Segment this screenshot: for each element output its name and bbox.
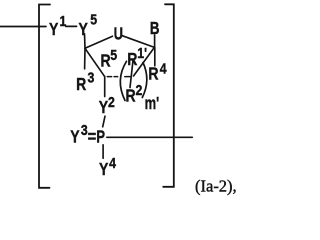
svg-text:5: 5 — [90, 11, 97, 27]
svg-text:R: R — [101, 51, 111, 71]
svg-text:3: 3 — [81, 122, 88, 138]
svg-text:Y: Y — [99, 97, 109, 117]
svg-text:(Ia-2),: (Ia-2), — [195, 177, 237, 196]
svg-text:R: R — [126, 86, 136, 106]
svg-text:m': m' — [145, 94, 160, 114]
svg-text:R: R — [148, 64, 158, 84]
svg-text:B: B — [150, 19, 160, 38]
svg-text:P: P — [96, 128, 105, 147]
svg-text:4: 4 — [160, 60, 167, 76]
svg-text:R: R — [127, 49, 137, 69]
svg-text:1': 1' — [137, 45, 147, 61]
svg-text:Y: Y — [70, 127, 80, 147]
svg-text:=: = — [88, 127, 97, 147]
svg-text:1: 1 — [60, 13, 67, 29]
svg-text:R: R — [76, 74, 86, 94]
svg-text:2: 2 — [136, 82, 143, 98]
svg-text:3: 3 — [88, 70, 95, 86]
svg-text:Y: Y — [99, 159, 109, 179]
svg-text:4: 4 — [109, 155, 116, 171]
svg-text:5: 5 — [110, 47, 117, 63]
svg-text:U: U — [114, 24, 123, 44]
svg-text:Y: Y — [49, 19, 59, 39]
svg-text:2: 2 — [108, 94, 115, 110]
svg-text:Y: Y — [79, 19, 89, 39]
